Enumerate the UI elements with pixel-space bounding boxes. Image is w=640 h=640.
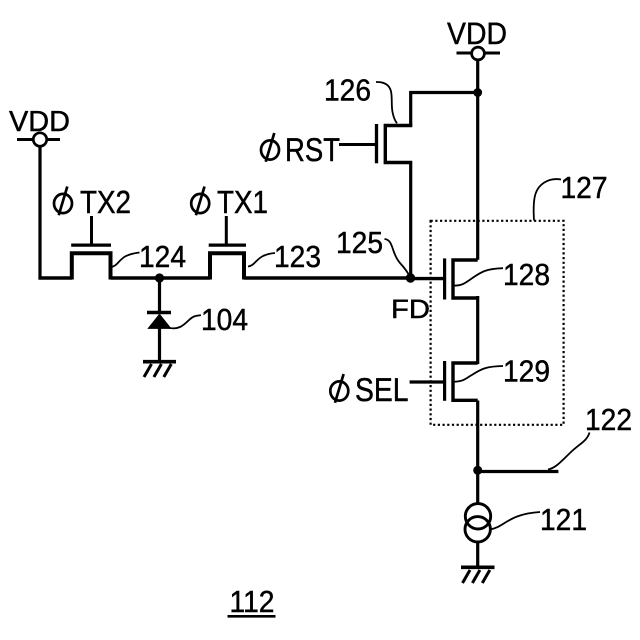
transistor 129: gate bar: [443, 361, 446, 401]
transistor 128 (amplifier): channel staple: [453, 260, 478, 298]
transistor 129 (select): channel staple: [453, 363, 478, 400]
wire: rail from VDD to TX2 source leg: [38, 276, 72, 280]
wire: branch from junction to reset transistor drain: [411, 93, 478, 127]
transistor 128: gate bar: [443, 258, 446, 299]
power VDD terminal (top right): crossbar: [457, 52, 501, 55]
node: output junction dot: [473, 466, 482, 475]
power VDD terminal (left): circle: [33, 133, 46, 146]
svg-text:VDD: VDD: [447, 16, 507, 51]
svg-text:124: 124: [139, 240, 186, 274]
ground (photodiode): hatch slashes: [144, 364, 171, 377]
svg-text:RST: RST: [285, 131, 340, 168]
label 127 leader: [534, 179, 561, 220]
photodiode 104: wire from node down: [158, 278, 161, 312]
svg-text:123: 123: [274, 240, 321, 274]
power VDD terminal (top right): circle: [472, 47, 485, 60]
label 129 leader: [453, 366, 503, 382]
wire: junction down to current source: [476, 470, 479, 504]
transistor 124 (TX2): gate bar: [71, 244, 111, 247]
svg-text:125: 125: [336, 226, 383, 260]
svg-text:104: 104: [201, 303, 248, 337]
transistor 126 (RST): channel staple: [385, 126, 412, 163]
transistor 123 (TX1): channel staple: [210, 253, 244, 279]
svg-text:126: 126: [324, 74, 371, 108]
transistor 124 (TX2): channel staple: [72, 253, 111, 279]
transistor 126 (RST): gate bar: [375, 124, 378, 163]
node FD: junction dot: [406, 273, 415, 282]
power VDD terminal (left): crossbar: [17, 138, 60, 141]
svg-text:112: 112: [230, 585, 275, 619]
wire: between amplifier source and select drain: [476, 296, 479, 364]
ground (current source): bar: [461, 565, 495, 569]
current source 121: lower circle: [465, 517, 490, 542]
label phi RST: phi symbol: [261, 133, 279, 162]
wire: VDD vertical main rail down to amp transistor: [476, 60, 479, 260]
current source 121: upper circle: [465, 504, 490, 529]
label 128 leader: [453, 268, 503, 286]
ground (current source): hatch slashes: [463, 570, 490, 583]
node: junction dot at VDD branch: [473, 88, 482, 97]
label 126 leader: [376, 82, 397, 123]
label 104 leader: [167, 315, 202, 328]
wire: current source to ground: [476, 542, 479, 566]
wire: rail between TX2 and TX1: [111, 276, 211, 280]
wire 122: output line to the right: [478, 470, 559, 473]
dotted box 127 (source follower block): [431, 221, 564, 425]
svg-text:122: 122: [585, 403, 632, 437]
svg-text:129: 129: [503, 355, 550, 389]
transistor 126 (RST): gate lead: [339, 143, 375, 146]
svg-text:127: 127: [561, 171, 608, 205]
label 122 leader: [548, 433, 590, 470]
wire: rail from TX1 to FD node: [244, 276, 411, 280]
transistor 129: gate lead: [410, 380, 444, 383]
label 125 leader: [385, 239, 410, 276]
svg-text:128: 128: [503, 258, 550, 292]
photodiode 104: cathode bar: [147, 311, 171, 315]
node: junction dot (photodiode tap): [155, 273, 164, 282]
transistor 123 (TX1): gate lead: [225, 216, 228, 245]
label phi TX1: phi symbol: [191, 187, 209, 216]
svg-text:TX2: TX2: [80, 184, 131, 220]
label 124 leader: [111, 253, 140, 268]
photodiode 104: anode triangle: [148, 314, 170, 328]
label phi TX2: phi symbol: [54, 187, 72, 216]
photodiode 104: wire to ground: [158, 328, 161, 361]
svg-text:TX1: TX1: [217, 184, 268, 220]
ground (photodiode): bar: [143, 360, 176, 364]
figure reference label 112 (underlined): [228, 585, 276, 619]
label 123 leader: [248, 253, 275, 267]
svg-text:FD: FD: [391, 294, 430, 324]
label phi SEL: phi symbol: [330, 374, 348, 403]
transistor 123 (TX1): gate bar: [209, 244, 246, 247]
svg-text:121: 121: [540, 503, 587, 537]
transistor 128: gate lead (from FD): [411, 277, 444, 280]
wire: left VDD down to source rail: [38, 146, 41, 278]
wire: select source down to output junction: [476, 401, 479, 471]
svg-text:SEL: SEL: [355, 371, 409, 408]
transistor 124 (TX2): gate lead: [90, 216, 93, 245]
wire: RST source down to FD node: [409, 164, 412, 279]
label 121 leader: [490, 512, 540, 530]
